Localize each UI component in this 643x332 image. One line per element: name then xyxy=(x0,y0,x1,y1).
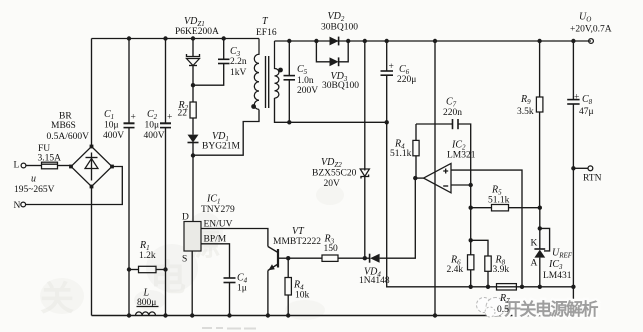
svg-text:L: L xyxy=(143,288,150,299)
wire N to bridge right vertex xyxy=(26,167,123,205)
op-amp IC2 LM321 xyxy=(415,163,451,192)
svg-text:22: 22 xyxy=(178,109,188,119)
node dot C1 top xyxy=(127,36,131,40)
svg-text:+: + xyxy=(167,113,172,123)
svg-text:3.9k: 3.9k xyxy=(493,265,510,275)
svg-text:LM431: LM431 xyxy=(543,271,572,281)
wire fuse to bridge xyxy=(58,165,72,167)
node dot C6 top xyxy=(385,39,389,43)
capacitor C7 220n xyxy=(416,119,471,185)
node dot C3 top xyxy=(222,36,226,40)
wire secondary bottom xyxy=(275,98,387,122)
wire bridge top to rail xyxy=(91,39,93,147)
diode VD2 30BQ100 xyxy=(330,37,339,46)
diode VD3 30BQ100 branch xyxy=(316,41,348,66)
svg-text:10μ: 10μ xyxy=(145,121,160,131)
svg-text:51.1k: 51.1k xyxy=(488,196,510,206)
resistor R4 51.1k xyxy=(413,124,419,178)
svg-text:1N4148: 1N4148 xyxy=(359,276,390,286)
resistor R1 1.2k xyxy=(129,266,166,272)
node dot C1 bottom xyxy=(127,313,131,317)
svg-text:BZX55C20: BZX55C20 xyxy=(312,169,357,179)
svg-text:P6KE200A: P6KE200A xyxy=(175,27,219,37)
svg-text:关: 关 xyxy=(40,280,74,318)
svg-text:1kV: 1kV xyxy=(230,68,247,78)
svg-text:RTN: RTN xyxy=(583,174,602,184)
zener VDz1 P6KE200A xyxy=(187,39,200,86)
svg-text:A: A xyxy=(531,259,538,269)
svg-text:0.5A/600V: 0.5A/600V xyxy=(47,132,90,142)
resistor R4 10k xyxy=(285,258,291,315)
svg-text:K: K xyxy=(531,239,538,249)
transistor VT MMBT2222 xyxy=(268,247,288,316)
transformer secondary winding xyxy=(275,41,279,98)
svg-text:20V: 20V xyxy=(324,179,341,189)
svg-text:195~265V: 195~265V xyxy=(14,185,55,195)
node dot C5 top xyxy=(287,39,291,43)
svg-text:1μ: 1μ xyxy=(237,284,247,294)
svg-text:30BQ100: 30BQ100 xyxy=(322,81,359,91)
diode VD4 1N4148 xyxy=(365,178,416,263)
bridge rectifier BR MB6S xyxy=(69,145,114,189)
diode VD1 BYG21M xyxy=(188,135,199,156)
svg-text:10k: 10k xyxy=(295,291,310,301)
IC1 TNY279 body xyxy=(184,222,201,252)
watermark text xyxy=(504,299,598,319)
svg-text:TNY279: TNY279 xyxy=(201,205,235,215)
svg-text:400V: 400V xyxy=(144,131,165,141)
node dot R1 right xyxy=(163,267,167,271)
svg-text:u: u xyxy=(31,174,36,185)
svg-text:VT: VT xyxy=(292,226,305,237)
shunt reference IC3 LM431 xyxy=(534,208,549,287)
svg-text:电: 电 xyxy=(150,258,186,298)
op-amp supply line (drawn through, see IC2) xyxy=(434,41,436,316)
svg-text:2.4k: 2.4k xyxy=(447,265,464,275)
node dot op-amp output xyxy=(413,176,417,180)
secondary polarity dot xyxy=(278,68,283,73)
svg-text:400V: 400V xyxy=(103,131,124,141)
node dot VD2 right xyxy=(346,39,350,43)
capacitor C2 xyxy=(160,39,172,316)
node dot C2 bottom xyxy=(163,313,167,317)
node dot ground line right corner xyxy=(571,285,575,289)
resistor R6 2.4k xyxy=(468,255,474,287)
svg-text:MB6S: MB6S xyxy=(51,121,76,131)
primary polarity dot xyxy=(251,104,256,109)
bottom ground rail xyxy=(92,315,574,317)
resistor R9 3.5k xyxy=(536,41,543,208)
faint scan smudges xyxy=(40,185,344,320)
svg-text:LM321: LM321 xyxy=(447,151,476,161)
svg-text:+: + xyxy=(574,93,579,103)
capacitor C3 2.2n xyxy=(193,39,230,86)
resistor R3 150 xyxy=(288,255,365,261)
node dot C2 top xyxy=(163,36,167,40)
wire op-amp -in xyxy=(451,184,471,186)
wire op-amp +in xyxy=(451,170,522,287)
inductor L 800u xyxy=(136,307,159,316)
node dot C6 bottom junction xyxy=(385,120,389,124)
svg-text:D: D xyxy=(182,213,189,223)
capacitor C1 xyxy=(124,39,136,316)
capacitor C6 220u xyxy=(381,41,394,122)
svg-text:1.2k: 1.2k xyxy=(139,251,156,261)
scan ghost marks bottom edge xyxy=(202,327,256,330)
svg-text:EF16: EF16 xyxy=(256,28,277,38)
svg-text:+: + xyxy=(131,113,136,123)
svg-text:10μ: 10μ xyxy=(104,121,119,131)
svg-text:S: S xyxy=(182,255,187,265)
transformer core xyxy=(265,56,267,108)
svg-text:3.5k: 3.5k xyxy=(517,107,534,117)
svg-text:3.15A: 3.15A xyxy=(38,154,62,164)
wire bridge bottom to ground rail xyxy=(91,187,93,316)
+20V output rail xyxy=(275,40,592,42)
RTN terminal xyxy=(571,166,575,170)
watermark logo xyxy=(477,298,506,318)
svg-text:2.2n: 2.2n xyxy=(230,57,247,67)
svg-text:220n: 220n xyxy=(443,108,462,118)
svg-text:L: L xyxy=(14,161,20,171)
wire secondary ground drop xyxy=(387,122,574,286)
svg-text:30BQ100: 30BQ100 xyxy=(321,23,358,33)
fuse FU 3.15A xyxy=(42,162,58,169)
svg-text:+20V,0.7A: +20V,0.7A xyxy=(570,25,612,35)
svg-text:BP/M: BP/M xyxy=(204,235,227,245)
capacitor C4 1u xyxy=(224,278,236,316)
transformer primary winding xyxy=(254,39,259,110)
svg-text:MMBT2222: MMBT2222 xyxy=(273,237,321,247)
node clamp junction xyxy=(191,83,195,87)
capacitor C5 1.0n 200V xyxy=(284,41,296,122)
capacitor C8 47u xyxy=(567,41,579,316)
node dot R3/VDz2/VD4 junction xyxy=(363,256,367,260)
svg-text:BR: BR xyxy=(59,112,72,122)
node dot VDz2 top xyxy=(363,39,367,43)
wire L to fuse xyxy=(26,165,42,167)
output terminal Uo xyxy=(589,39,594,44)
svg-text:FU: FU xyxy=(38,144,50,154)
wire -in node down xyxy=(470,185,472,255)
top primary rail xyxy=(92,38,260,40)
node dot +in ground xyxy=(520,285,524,289)
svg-text:200V: 200V xyxy=(297,86,318,96)
svg-text:开关电源解析: 开关电源解析 xyxy=(504,299,598,319)
resistor R7 0.5 (current sense in divider ground) xyxy=(497,284,517,290)
resistor R2 22 xyxy=(190,85,196,134)
wire drain to primary bottom xyxy=(193,110,259,156)
node dot VT emitter ground xyxy=(266,313,270,317)
node dot VT base xyxy=(286,256,290,260)
svg-text:N: N xyxy=(14,201,21,211)
node dot VD2 left xyxy=(314,39,318,43)
node dot VDz1 top xyxy=(191,36,195,40)
zener VDz2 BZX55C20 xyxy=(360,41,369,258)
svg-text:47μ: 47μ xyxy=(579,107,594,117)
svg-text:150: 150 xyxy=(324,244,339,254)
resistor R5 51.1k xyxy=(471,205,540,211)
node drain junction xyxy=(191,153,195,157)
svg-text:BYG21M: BYG21M xyxy=(202,142,241,152)
svg-text:0.5: 0.5 xyxy=(497,305,509,315)
svg-text:+: + xyxy=(389,62,394,72)
svg-text:220μ: 220μ xyxy=(397,75,416,85)
node dot C5 bottom xyxy=(287,120,291,124)
svg-text:1.0n: 1.0n xyxy=(297,76,314,86)
svg-text:800μ: 800μ xyxy=(137,298,156,308)
resistor R8 3.9k xyxy=(469,238,492,287)
node dot R1 left xyxy=(127,267,131,271)
svg-text:51.1k: 51.1k xyxy=(390,149,412,159)
